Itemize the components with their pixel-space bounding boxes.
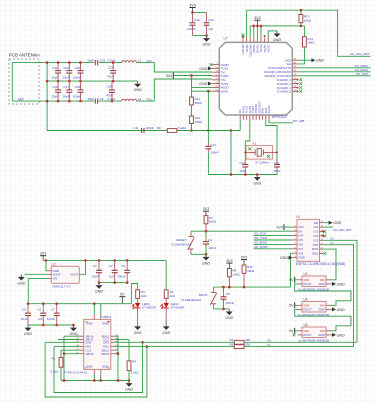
capacitor C23 xyxy=(94,60,96,65)
junction xyxy=(117,352,120,355)
USBC1 pin DN2 xyxy=(80,341,84,343)
junction xyxy=(79,61,82,64)
svg-text:GND: GND xyxy=(199,82,207,86)
U2 pin VOUT right xyxy=(79,273,82,275)
U1 pin IO5 xyxy=(293,239,298,241)
svg-text:29pF: 29pF xyxy=(52,95,59,99)
wire xyxy=(253,26,255,38)
junction xyxy=(117,379,120,382)
inductor L1 xyxy=(122,61,137,63)
svg-text:29pF: 29pF xyxy=(52,75,59,79)
svg-text:C7: C7 xyxy=(51,307,55,311)
svg-text:3V3: 3V3 xyxy=(254,16,260,20)
svg-text:1kΩ: 1kΩ xyxy=(170,294,176,298)
ground U5 xyxy=(332,333,336,337)
pushbutton RESET xyxy=(190,231,192,236)
wire D- to USB xyxy=(323,245,353,347)
wire xyxy=(268,31,277,38)
svg-text:IO5: IO5 xyxy=(298,238,303,242)
svg-text:IO0: IO0 xyxy=(314,225,319,229)
svg-text:1uF: 1uF xyxy=(208,27,213,31)
no-connect xyxy=(323,230,326,233)
ground reset xyxy=(205,254,207,257)
connector USBC1 body xyxy=(84,319,111,369)
U2 pin VIN xyxy=(48,278,51,280)
junction xyxy=(42,324,45,327)
junction xyxy=(300,25,303,28)
svg-text:3V3: 3V3 xyxy=(241,255,247,259)
U1 pin IO0 xyxy=(320,226,324,228)
svg-text:USBC1: USBC1 xyxy=(102,315,112,319)
junction xyxy=(93,302,96,305)
svg-text:47pF: 47pF xyxy=(107,75,114,79)
wire gnd rail xyxy=(99,282,127,284)
U1 pin EP xyxy=(320,222,324,224)
no-connect xyxy=(267,155,270,158)
junction xyxy=(256,25,259,28)
svg-text:C3: C3 xyxy=(121,264,125,268)
svg-text:10kΩ: 10kΩ xyxy=(233,273,241,277)
U7 pin D5/ADR_1/SCK/IRQ xyxy=(292,75,297,77)
svg-text:C20: C20 xyxy=(75,66,81,70)
junction xyxy=(46,100,49,103)
svg-text:D+: D+ xyxy=(331,237,335,241)
junction xyxy=(113,281,116,284)
svg-text:330: 330 xyxy=(245,338,250,342)
wire VIN xyxy=(28,278,48,280)
junction xyxy=(100,379,103,382)
svg-text:IOI_NFC_RST: IOI_NFC_RST xyxy=(333,228,351,232)
junction xyxy=(243,286,246,289)
ground U4 xyxy=(332,307,336,311)
wire xyxy=(46,260,48,270)
svg-text:10uF: 10uF xyxy=(21,317,28,321)
svg-text:PCB ANTENNA: PCB ANTENNA xyxy=(9,53,40,58)
no-connect xyxy=(299,86,302,89)
svg-text:GND: GND xyxy=(337,308,345,312)
svg-text:C19: C19 xyxy=(107,85,113,89)
svg-text:R5: R5 xyxy=(229,343,233,347)
wire D+ to USB xyxy=(323,240,357,342)
junction xyxy=(84,259,87,262)
wire xyxy=(128,371,130,381)
U7 pin TVDD xyxy=(212,75,219,77)
svg-text:15pF: 15pF xyxy=(274,169,281,173)
svg-text:C6: C6 xyxy=(37,307,41,311)
svg-text:3V3: 3V3 xyxy=(203,207,209,211)
junction xyxy=(228,286,231,289)
U7 pin D4/ADR_2 xyxy=(292,79,297,81)
junction xyxy=(146,345,149,348)
ground C10 xyxy=(206,36,208,39)
wire TX1 to U7 xyxy=(154,63,212,72)
svg-text:IO2: IO2 xyxy=(314,234,319,238)
junction xyxy=(205,253,208,256)
power flag 3V3 (R10) xyxy=(241,259,247,261)
wire VMID xyxy=(192,90,212,92)
svg-text:D-: D- xyxy=(268,343,271,347)
junction xyxy=(46,61,49,64)
op-amp U5 WS2812 body xyxy=(302,327,326,338)
U7 pin PVSS xyxy=(260,38,262,43)
junction xyxy=(205,230,208,233)
svg-text:GND: GND xyxy=(318,333,324,337)
wire VBUS xyxy=(115,335,118,337)
junction xyxy=(46,80,49,83)
wire xyxy=(137,62,155,64)
ground U2 xyxy=(20,274,22,277)
U7 pin GND xyxy=(292,59,297,61)
capacitor C9 xyxy=(94,99,96,104)
USBC1 pin DP1 xyxy=(80,346,84,348)
U7 pin TVSS xyxy=(252,115,254,120)
U1 pin TXD xyxy=(320,244,324,246)
wire SBU1 xyxy=(115,349,117,351)
svg-text:100nF: 100nF xyxy=(117,274,126,278)
junction xyxy=(79,80,82,83)
wire gnd rail xyxy=(61,380,129,382)
power flag 3V3 (top) xyxy=(190,7,196,9)
junction xyxy=(98,259,101,262)
ground antenna mid xyxy=(137,81,139,84)
svg-text:GND: GND xyxy=(86,364,92,368)
svg-text:5V: 5V xyxy=(289,278,294,282)
resistor R3 xyxy=(136,290,140,299)
junction xyxy=(63,379,66,382)
svg-text:C5: C5 xyxy=(22,307,26,311)
capacitor C15 xyxy=(192,13,194,23)
svg-text:GND: GND xyxy=(316,59,324,63)
capacitor C16 xyxy=(57,81,59,90)
svg-text:C15: C15 xyxy=(194,18,200,22)
svg-text:3V3: 3V3 xyxy=(276,225,282,229)
U7 pin DVDD xyxy=(256,38,258,43)
svg-text:VOUT: VOUT xyxy=(70,272,78,276)
U7 pin AVSS xyxy=(242,115,244,120)
svg-text:GND: GND xyxy=(273,38,281,42)
svg-text:IO1: IO1 xyxy=(314,230,319,234)
svg-text:100Ω: 100Ω xyxy=(195,120,203,124)
op-amp U3 WS2812 body xyxy=(302,276,326,287)
junction xyxy=(207,129,210,132)
wire U3 DOUT to U4 DIN xyxy=(295,284,351,305)
USBC1 pin DN1 xyxy=(111,346,115,348)
svg-text:27.12MHz: 27.12MHz xyxy=(255,161,269,165)
wire xyxy=(100,304,102,315)
svg-text:GND: GND xyxy=(17,281,25,285)
wire xyxy=(330,283,332,285)
svg-text:DOUT: DOUT xyxy=(303,308,311,312)
junction xyxy=(253,25,256,28)
inductor L2 xyxy=(122,99,137,101)
junction xyxy=(111,100,114,103)
svg-text:IO4: IO4 xyxy=(298,234,303,238)
svg-text:10kΩ: 10kΩ xyxy=(304,19,312,23)
svg-text:SVSS: SVSS xyxy=(266,45,270,53)
svg-text:GND: GND xyxy=(199,67,207,71)
resistor R2 xyxy=(234,340,244,344)
svg-text:IO3: IO3 xyxy=(314,238,319,242)
no-connect SVDD xyxy=(210,63,213,66)
wire xyxy=(249,26,251,38)
wire 3V3 top rail xyxy=(250,25,304,27)
U7 pin OSCOUT xyxy=(258,115,260,120)
junction xyxy=(141,341,144,344)
svg-text:2.2uH: 2.2uH xyxy=(107,59,115,63)
U1 pin 3V3 xyxy=(293,226,298,228)
ground USB xyxy=(128,381,130,384)
svg-text:10kΩ: 10kΩ xyxy=(247,269,255,273)
svg-text:100nF: 100nF xyxy=(146,126,155,130)
svg-text:29pF: 29pF xyxy=(63,75,70,79)
svg-text:IOI_TXD0: IOI_TXD0 xyxy=(254,236,268,240)
capacitor C21 xyxy=(57,63,59,71)
svg-text:C13: C13 xyxy=(274,161,280,165)
svg-text:DVDD: DVDD xyxy=(256,45,260,53)
U7 pin AUX1 xyxy=(246,115,248,120)
ground TVSS xyxy=(208,66,212,70)
svg-text:TX1: TX1 xyxy=(146,59,152,63)
U1 pin EN xyxy=(293,230,298,232)
U7 pin SVSS xyxy=(268,115,270,120)
svg-text:C9: C9 xyxy=(100,97,104,101)
wire xyxy=(27,279,29,304)
ground TVSS2 xyxy=(208,82,212,86)
ground U7 top xyxy=(276,31,278,34)
svg-text:TYPE-C-31-M-12: TYPE-C-31-M-12 xyxy=(64,371,88,375)
resistor R5 xyxy=(234,345,244,349)
wire DP loop xyxy=(54,342,143,392)
wire xyxy=(323,222,328,224)
wire DN loop xyxy=(45,342,147,397)
wire xyxy=(246,10,248,37)
svg-text:330: 330 xyxy=(245,343,250,347)
wire IOI_SCK xyxy=(254,235,293,237)
svg-text:GND: GND xyxy=(337,333,345,337)
svg-text:680Ω: 680Ω xyxy=(195,101,203,105)
wire VBUS2 xyxy=(64,353,80,355)
U2 pin GND xyxy=(48,270,51,272)
junction xyxy=(260,25,263,28)
pushbutton BOOT xyxy=(213,287,215,292)
junction xyxy=(93,379,96,382)
U7 pin SVDD xyxy=(212,64,219,66)
wire EN net xyxy=(191,230,293,232)
svg-text:TX2: TX2 xyxy=(146,97,152,101)
U3 pin GND xyxy=(326,283,330,285)
svg-text:TS-1088-AR02016: TS-1088-AR02016 xyxy=(181,299,202,302)
svg-text:100nF: 100nF xyxy=(47,317,56,321)
ground C1 xyxy=(98,283,100,286)
svg-text:IO6: IO6 xyxy=(298,243,303,247)
svg-text:MFIN: MFIN xyxy=(245,45,249,52)
capacitor C3 xyxy=(126,260,128,270)
svg-text:GND: GND xyxy=(280,256,288,260)
junction xyxy=(190,129,193,132)
wire CC2 xyxy=(115,339,129,341)
svg-text:IOI_RXD0: IOI_RXD0 xyxy=(254,245,268,249)
junction xyxy=(112,61,115,64)
svg-text:100nF: 100nF xyxy=(208,246,217,250)
resistor R8 xyxy=(228,269,232,277)
resistor R7 xyxy=(204,216,208,224)
U7 pin DVSS xyxy=(264,38,266,43)
U1 pin IO6 xyxy=(293,243,298,245)
svg-text:GND: GND xyxy=(24,332,32,336)
wire VMID net xyxy=(47,130,240,132)
junction xyxy=(68,61,71,64)
wire xyxy=(24,273,48,275)
wire xyxy=(137,100,155,102)
USBC1 pin VBUS xyxy=(80,353,84,355)
op-amp U7 MFRC522 body xyxy=(219,42,292,115)
U3 pin DOUT xyxy=(298,283,302,285)
svg-text:5.1kΩ: 5.1kΩ xyxy=(51,370,60,374)
svg-text:5V: 5V xyxy=(120,293,125,297)
U4 pin DOUT xyxy=(298,308,302,310)
svg-text:5V: 5V xyxy=(289,329,294,333)
svg-text:TS-1088-AR02016: TS-1088-AR02016 xyxy=(171,243,192,246)
ground U3 xyxy=(332,282,336,286)
ground LED1 xyxy=(137,324,139,327)
svg-text:KT-0603R: KT-0603R xyxy=(171,306,185,310)
U7 pin NRSTPD xyxy=(249,38,251,43)
wire xyxy=(256,26,258,38)
svg-text:GND: GND xyxy=(203,43,211,47)
U7 pin TVSS xyxy=(212,83,219,85)
svg-text:PVDD: PVDD xyxy=(252,45,256,53)
wire 3V3 rail xyxy=(43,259,166,261)
svg-text:U1: U1 xyxy=(296,215,300,219)
junction xyxy=(300,9,303,12)
svg-text:C12: C12 xyxy=(239,161,245,165)
junction xyxy=(244,173,247,176)
svg-text:C8: C8 xyxy=(226,292,230,296)
junction xyxy=(57,80,60,83)
junction xyxy=(222,286,225,289)
antenna dashed outline xyxy=(9,59,39,104)
svg-text:R9: R9 xyxy=(157,126,161,130)
junction xyxy=(128,379,131,382)
wire 5V to R3 xyxy=(132,284,138,304)
svg-text:KT-0603R: KT-0603R xyxy=(142,306,156,310)
wire IO7 xyxy=(269,120,293,123)
svg-text:IO8: IO8 xyxy=(298,251,303,255)
svg-text:GND: GND xyxy=(333,221,341,225)
junction xyxy=(256,173,259,176)
resistor R4 xyxy=(127,361,131,371)
capacitor C6 xyxy=(42,304,44,313)
junction xyxy=(126,281,129,284)
svg-text:BOOT: BOOT xyxy=(199,293,208,297)
U1 pin IO4 xyxy=(293,235,298,237)
capacitor C17 xyxy=(68,81,70,90)
capacitor C11 xyxy=(141,128,143,133)
U4 pin DIN xyxy=(326,304,330,306)
svg-text:15pF: 15pF xyxy=(87,97,94,101)
wire D+ xyxy=(244,341,357,343)
svg-text:5V: 5V xyxy=(289,304,294,308)
resistor R9 xyxy=(167,129,177,133)
wire xyxy=(239,120,241,131)
svg-text:D1/ADR_5: D1/ADR_5 xyxy=(277,90,291,94)
resistor R14 xyxy=(303,37,307,47)
U7 pin D7/SCL/MISO/TX xyxy=(292,67,297,69)
USBC1 bottom shield pins xyxy=(93,369,95,374)
svg-text:15pF: 15pF xyxy=(87,59,94,63)
svg-text:D-: D- xyxy=(331,241,334,245)
ground LED2 xyxy=(165,324,167,327)
U1 pin RXD xyxy=(320,248,324,250)
U7 pin VMID xyxy=(212,90,219,92)
svg-text:U4: U4 xyxy=(304,298,308,302)
U7 pin MFIN xyxy=(246,38,248,43)
wire xyxy=(117,336,119,380)
wire NRSTPD net xyxy=(247,10,371,56)
wire IOI_TXD0 xyxy=(254,239,293,241)
no-connect xyxy=(248,147,251,150)
no-connect xyxy=(323,234,326,237)
svg-text:ESP32-C3-WROOM-02-N4(4MB): ESP32-C3-WROOM-02-N4(4MB) xyxy=(296,262,345,266)
svg-text:C14: C14 xyxy=(210,143,216,147)
U7 pin D1/ADR_5 xyxy=(292,90,297,92)
svg-text:GND: GND xyxy=(162,331,170,335)
junction xyxy=(117,379,120,382)
svg-text:C1: C1 xyxy=(93,264,97,268)
svg-text:C21: C21 xyxy=(52,66,58,70)
svg-text:AMS1117-3.3: AMS1117-3.3 xyxy=(53,284,71,288)
wire xyxy=(99,62,122,64)
svg-text:C17: C17 xyxy=(63,85,69,89)
U7 pin D2/ADR_4 xyxy=(292,87,297,89)
svg-text:IOI_SCK: IOI_SCK xyxy=(356,72,368,76)
capacitor C10 xyxy=(206,13,208,23)
wire gnd rail xyxy=(28,324,74,326)
junction xyxy=(191,11,194,14)
U7 pin OSCIN xyxy=(255,115,257,120)
svg-text:C16: C16 xyxy=(52,85,58,89)
wire TX2 rail xyxy=(12,100,94,102)
power flag 3V3 (R7) xyxy=(203,210,209,212)
wire xyxy=(205,231,207,238)
wire BOOT net xyxy=(214,253,293,287)
svg-text:PVSS: PVSS xyxy=(259,45,263,53)
resistor R11 xyxy=(190,97,194,105)
svg-text:EN: EN xyxy=(298,229,302,233)
no-connect U5 DOUT xyxy=(293,333,296,336)
wire TX1 rail xyxy=(12,62,94,64)
svg-text:15pF: 15pF xyxy=(239,169,246,173)
junction xyxy=(42,302,45,305)
ground boot xyxy=(228,309,230,312)
wire U4 DOUT to U5 DIN xyxy=(295,309,351,330)
resistor R13 xyxy=(299,15,303,23)
power flag 3V3 (U2) xyxy=(40,255,46,257)
U5 pin GND xyxy=(326,334,330,336)
LED LED2 xyxy=(165,298,167,303)
U7 pin D6/ADR_0/MOSI/RX xyxy=(292,71,297,73)
wire IOI_MISO xyxy=(254,243,293,245)
wire D- xyxy=(244,346,353,348)
wire MISO xyxy=(298,67,371,69)
power flag 3V3 (U1) xyxy=(283,224,285,230)
svg-text:VIN: VIN xyxy=(53,277,58,281)
svg-text:GND: GND xyxy=(202,261,210,265)
wire SCK xyxy=(298,75,371,77)
junction xyxy=(207,90,210,93)
junction xyxy=(205,34,208,37)
wire xyxy=(193,12,207,14)
